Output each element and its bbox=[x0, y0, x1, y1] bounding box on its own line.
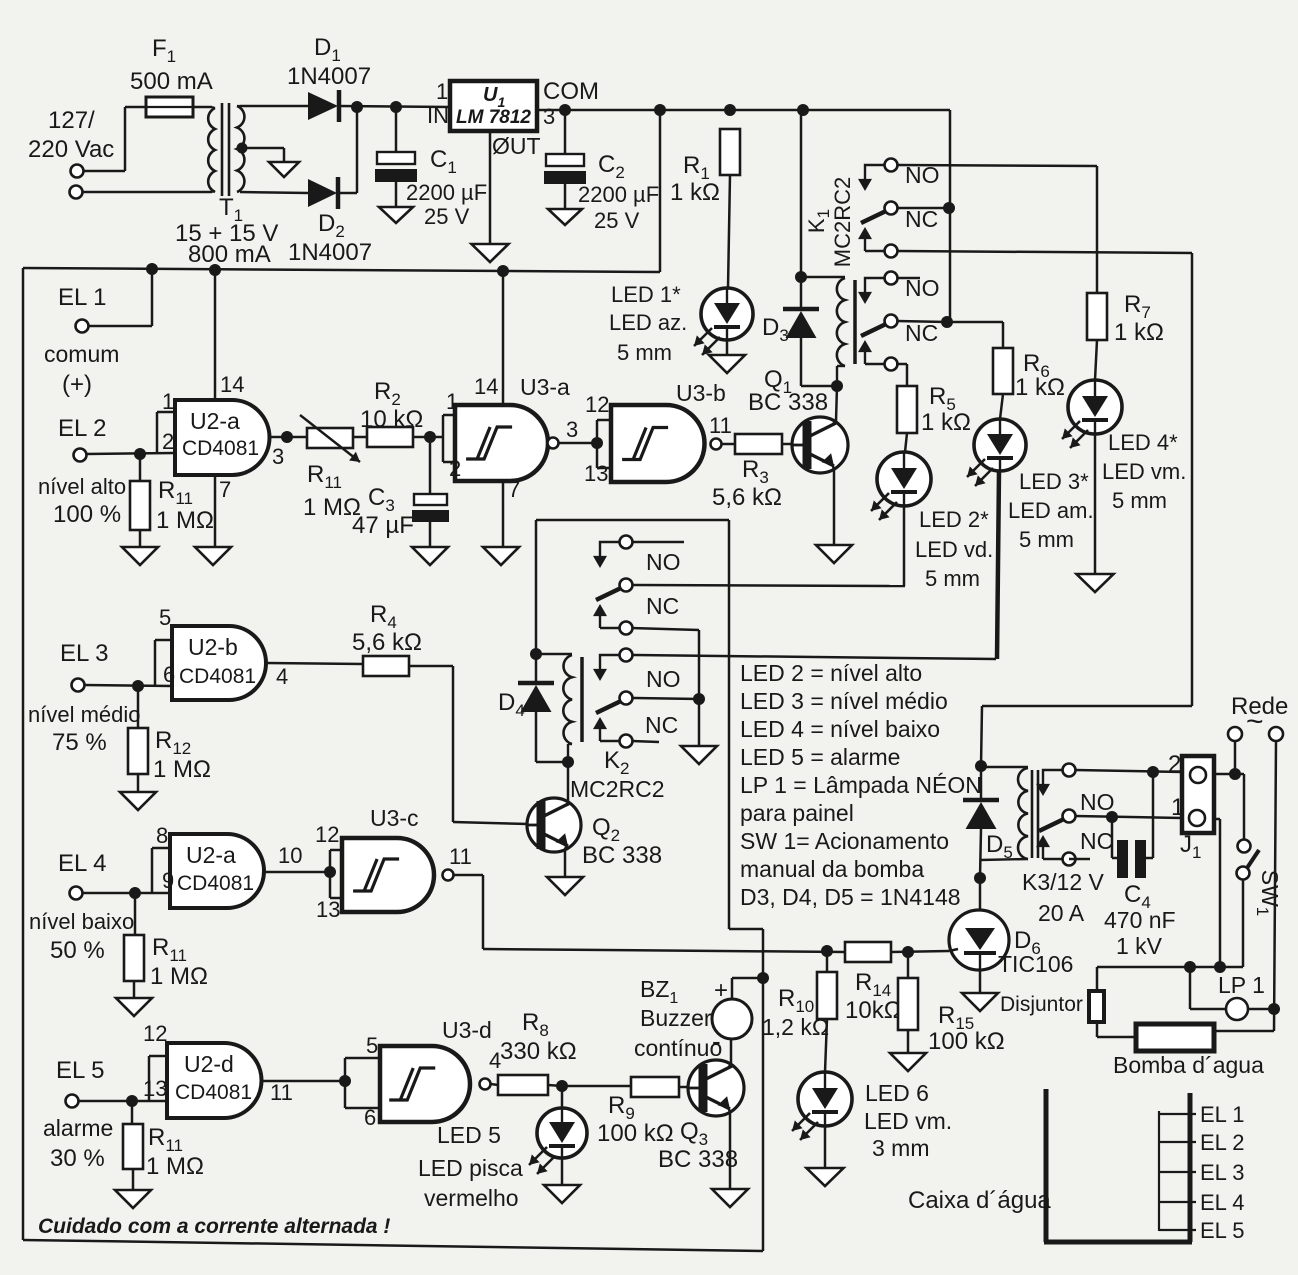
svg-text:manual da bomba: manual da bomba bbox=[740, 856, 924, 882]
svg-text:10kΩ: 10kΩ bbox=[845, 997, 902, 1024]
svg-text:2200 µF: 2200 µF bbox=[578, 182, 659, 207]
svg-text:para painel: para painel bbox=[740, 800, 854, 826]
svg-text:9: 9 bbox=[162, 868, 174, 893]
svg-text:8: 8 bbox=[156, 823, 168, 848]
svg-text:1 kV: 1 kV bbox=[1116, 933, 1163, 959]
svg-text:EL 3: EL 3 bbox=[60, 640, 108, 667]
svg-text:1 MΩ: 1 MΩ bbox=[146, 1153, 204, 1180]
svg-text:Cuidado com a corrente alterna: Cuidado com a corrente alternada ! bbox=[38, 1215, 390, 1238]
svg-text:Caixa d´água: Caixa d´água bbox=[908, 1187, 1051, 1214]
svg-text:14: 14 bbox=[474, 374, 498, 399]
svg-text:100 %: 100 % bbox=[53, 501, 121, 528]
svg-text:500 mA: 500 mA bbox=[130, 68, 213, 95]
svg-text:11: 11 bbox=[449, 844, 472, 869]
svg-text:1 kΩ: 1 kΩ bbox=[921, 409, 971, 436]
svg-text:3: 3 bbox=[566, 417, 578, 442]
svg-text:U2-a: U2-a bbox=[190, 408, 240, 434]
svg-text:4: 4 bbox=[276, 664, 288, 689]
svg-text:comum: comum bbox=[44, 341, 119, 367]
svg-text:25 V: 25 V bbox=[424, 204, 470, 229]
svg-text:Disjuntor: Disjuntor bbox=[1000, 993, 1083, 1016]
svg-text:1N4007: 1N4007 bbox=[288, 239, 372, 266]
svg-text:25 V: 25 V bbox=[594, 208, 640, 233]
svg-text:10: 10 bbox=[278, 843, 302, 868]
svg-text:1 kΩ: 1 kΩ bbox=[670, 179, 720, 206]
svg-text:BC 338: BC 338 bbox=[748, 389, 828, 416]
svg-text:MC2RC2: MC2RC2 bbox=[570, 776, 665, 802]
svg-text:6: 6 bbox=[163, 662, 175, 687]
svg-text:COM: COM bbox=[543, 78, 599, 105]
svg-text:LED 3 = nível médio: LED 3 = nível médio bbox=[740, 688, 948, 714]
svg-text:LED 2 = nível alto: LED 2 = nível alto bbox=[740, 660, 922, 686]
svg-text:D3, D4, D5 = 1N4148: D3, D4, D5 = 1N4148 bbox=[740, 884, 961, 910]
svg-text:5,6 kΩ: 5,6 kΩ bbox=[712, 484, 782, 511]
svg-text:Bomba d´agua: Bomba d´agua bbox=[1113, 1052, 1264, 1078]
svg-text:NO: NO bbox=[1080, 789, 1115, 815]
svg-text:LP 1 = Lâmpada NÉON: LP 1 = Lâmpada NÉON bbox=[740, 772, 982, 798]
svg-text:LM 7812: LM 7812 bbox=[456, 107, 531, 128]
svg-text:MC2RC2: MC2RC2 bbox=[830, 177, 855, 267]
svg-text:12: 12 bbox=[585, 392, 609, 417]
svg-text:3: 3 bbox=[272, 444, 284, 469]
svg-text:5: 5 bbox=[366, 1033, 378, 1058]
svg-text:contínuo: contínuo bbox=[634, 1035, 722, 1061]
svg-text:U3-b: U3-b bbox=[676, 380, 726, 406]
svg-text:2: 2 bbox=[162, 429, 174, 454]
svg-text:470 nF: 470 nF bbox=[1104, 907, 1176, 933]
svg-text:50 %: 50 % bbox=[50, 937, 105, 964]
svg-text:BC 338: BC 338 bbox=[658, 1146, 738, 1173]
svg-text:U3-d: U3-d bbox=[442, 1017, 492, 1043]
svg-text:12: 12 bbox=[315, 822, 339, 847]
svg-text:vermelho: vermelho bbox=[424, 1185, 519, 1211]
svg-text:nível alto: nível alto bbox=[38, 474, 126, 499]
svg-text:LED 2*: LED 2* bbox=[919, 507, 989, 532]
svg-text:alarme: alarme bbox=[43, 1115, 113, 1141]
svg-text:LED 5 = alarme: LED 5 = alarme bbox=[740, 744, 900, 770]
svg-text:LED 4 = nível baixo: LED 4 = nível baixo bbox=[740, 716, 940, 742]
svg-text:12: 12 bbox=[143, 1021, 167, 1046]
svg-text:CD4081: CD4081 bbox=[175, 1081, 252, 1104]
svg-text:LED pisca: LED pisca bbox=[418, 1155, 523, 1181]
svg-text:11: 11 bbox=[270, 1080, 293, 1105]
svg-text:11: 11 bbox=[709, 413, 732, 438]
svg-text:LED vm.: LED vm. bbox=[864, 1108, 952, 1134]
svg-text:100 kΩ: 100 kΩ bbox=[928, 1028, 1005, 1055]
svg-text:2: 2 bbox=[1168, 751, 1181, 778]
svg-text:13: 13 bbox=[584, 461, 608, 486]
svg-text:LP 1: LP 1 bbox=[1218, 972, 1265, 998]
svg-text:5,6 kΩ: 5,6 kΩ bbox=[352, 629, 422, 656]
svg-text:CD4081: CD4081 bbox=[182, 437, 259, 460]
svg-text:BC 338: BC 338 bbox=[582, 842, 662, 869]
svg-text:nível baixo: nível baixo bbox=[29, 909, 134, 934]
svg-text:30 %: 30 % bbox=[50, 1145, 105, 1172]
svg-text:14: 14 bbox=[220, 372, 244, 397]
svg-text:EL 3: EL 3 bbox=[1200, 1160, 1244, 1185]
svg-text:1,2 kΩ: 1,2 kΩ bbox=[762, 1014, 829, 1040]
svg-text:2200 µF: 2200 µF bbox=[406, 180, 487, 205]
svg-text:Buzzer: Buzzer bbox=[640, 1005, 712, 1031]
svg-text:13: 13 bbox=[143, 1076, 167, 1101]
svg-text:U2-d: U2-d bbox=[184, 1051, 234, 1077]
svg-text:10 kΩ: 10 kΩ bbox=[360, 406, 423, 433]
svg-text:CD4081: CD4081 bbox=[179, 665, 256, 688]
svg-text:LED 1*: LED 1* bbox=[611, 282, 681, 307]
svg-text:ØUT: ØUT bbox=[492, 133, 541, 159]
svg-text:LED 4*: LED 4* bbox=[1108, 430, 1178, 455]
svg-text:LED 6: LED 6 bbox=[865, 1080, 929, 1106]
svg-text:EL 4: EL 4 bbox=[58, 850, 106, 877]
svg-text:LED am.: LED am. bbox=[1008, 498, 1094, 523]
svg-text:1: 1 bbox=[436, 79, 448, 104]
svg-text:6: 6 bbox=[364, 1105, 376, 1130]
svg-text:EL 5: EL 5 bbox=[1200, 1218, 1244, 1243]
svg-text:20 A: 20 A bbox=[1038, 900, 1085, 926]
svg-text:13: 13 bbox=[316, 897, 340, 922]
svg-text:220 Vac: 220 Vac bbox=[28, 136, 114, 163]
svg-text:LED vm.: LED vm. bbox=[1102, 459, 1186, 484]
svg-text:3 mm: 3 mm bbox=[872, 1135, 930, 1161]
svg-text:NO: NO bbox=[646, 549, 681, 575]
svg-text:U3-c: U3-c bbox=[370, 805, 419, 831]
svg-text:1 kΩ: 1 kΩ bbox=[1015, 374, 1065, 401]
svg-text:K3/12 V: K3/12 V bbox=[1022, 869, 1104, 895]
svg-text:EL 2: EL 2 bbox=[58, 415, 106, 442]
svg-text:nível médio: nível médio bbox=[28, 702, 141, 727]
svg-text:5 mm: 5 mm bbox=[1112, 488, 1167, 513]
svg-text:1: 1 bbox=[162, 389, 174, 414]
svg-text:U2-b: U2-b bbox=[188, 634, 238, 660]
svg-text:NC: NC bbox=[1080, 828, 1113, 854]
svg-text:U2-a: U2-a bbox=[186, 842, 236, 868]
svg-text:3: 3 bbox=[543, 104, 555, 129]
svg-text:7: 7 bbox=[219, 477, 231, 502]
svg-text:LED vd.: LED vd. bbox=[915, 537, 993, 562]
svg-text:800 mA: 800 mA bbox=[188, 241, 271, 268]
svg-text:LED 5: LED 5 bbox=[437, 1122, 501, 1148]
svg-text:LED 3*: LED 3* bbox=[1019, 469, 1089, 494]
svg-text:~: ~ bbox=[1246, 705, 1264, 738]
svg-text:+: + bbox=[714, 977, 728, 1004]
svg-text:NC: NC bbox=[645, 712, 678, 738]
svg-text:CD4081: CD4081 bbox=[177, 872, 254, 895]
svg-text:75 %: 75 % bbox=[52, 729, 107, 756]
svg-text:1 MΩ: 1 MΩ bbox=[153, 756, 211, 783]
svg-text:TIC106: TIC106 bbox=[998, 951, 1073, 977]
svg-text:330 kΩ: 330 kΩ bbox=[500, 1038, 577, 1065]
svg-text:47 µF: 47 µF bbox=[352, 512, 414, 539]
svg-text:100 kΩ: 100 kΩ bbox=[597, 1120, 674, 1147]
svg-text:U3-a: U3-a bbox=[520, 374, 570, 400]
svg-text:5 mm: 5 mm bbox=[617, 340, 672, 365]
svg-text:IN: IN bbox=[427, 103, 449, 128]
svg-text:NO: NO bbox=[646, 666, 681, 692]
svg-text:EL 4: EL 4 bbox=[1200, 1190, 1244, 1215]
svg-text:2: 2 bbox=[449, 456, 461, 481]
svg-text:NC: NC bbox=[905, 320, 938, 346]
svg-text:5: 5 bbox=[159, 605, 171, 630]
svg-text:127/: 127/ bbox=[48, 107, 95, 134]
svg-text:7: 7 bbox=[508, 477, 520, 502]
svg-text:(+): (+) bbox=[62, 371, 92, 398]
svg-text:NC: NC bbox=[646, 593, 679, 619]
svg-text:1 kΩ: 1 kΩ bbox=[1114, 319, 1164, 346]
svg-text:1N4007: 1N4007 bbox=[287, 63, 371, 90]
svg-text:EL 1: EL 1 bbox=[1200, 1102, 1244, 1127]
svg-text:LED az.: LED az. bbox=[609, 310, 687, 335]
svg-text:EL 2: EL 2 bbox=[1200, 1130, 1244, 1155]
svg-text:SW 1= Acionamento: SW 1= Acionamento bbox=[740, 828, 949, 854]
svg-text:5 mm: 5 mm bbox=[925, 566, 980, 591]
svg-text:1 MΩ: 1 MΩ bbox=[150, 963, 208, 990]
svg-text:EL 1: EL 1 bbox=[58, 284, 106, 311]
svg-text:NC: NC bbox=[905, 206, 938, 232]
svg-text:5 mm: 5 mm bbox=[1019, 527, 1074, 552]
svg-text:1: 1 bbox=[446, 389, 458, 414]
svg-text:EL 5: EL 5 bbox=[56, 1057, 104, 1084]
svg-text:1 MΩ: 1 MΩ bbox=[156, 507, 214, 534]
svg-text:1: 1 bbox=[1171, 794, 1184, 821]
